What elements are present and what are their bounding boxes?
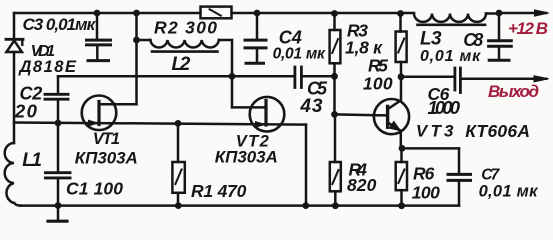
junction L2 left / drain wire [133,37,140,44]
svg-text:R6: R6 [413,164,435,184]
capacitor C2 [45,76,68,123]
junction VT1 drain branch / top rail [133,10,140,17]
wire VT1 drain vertical [135,13,138,104]
wire L2 right vertical to VT2 drain [231,40,234,107]
svg-text:43: 43 [299,96,322,117]
svg-text:Выход: Выход [488,82,539,101]
svg-text:0,01 мк: 0,01 мк [420,48,481,65]
chassis bar C3 [88,59,109,62]
junction L2-VT2 vertical / C2-C5 wire [229,73,236,80]
resistor R3 [330,14,341,115]
arrow +12V [535,10,549,16]
junction VT3 emitter / R6 / C7 [399,145,406,152]
wire C2 to C5 (node A) [58,75,293,78]
capacitor C8 [489,13,512,59]
chassis bar C4 [246,62,264,65]
svg-text:VT3: VT3 [416,121,454,140]
inductor L3 [414,14,499,25]
junction R4 bottom / bottom rail [332,202,339,209]
capacitor C4 [245,13,266,62]
arrow output Выход [534,76,549,82]
junction VT2 source / bottom rail [302,202,309,209]
chassis bar C8 [489,59,509,62]
wire mid (VT1 gate / source, R1, VT2 gate) [14,123,306,125]
junction C2 / C1 / mid wire [55,120,62,127]
junction R3 / top rail [331,10,338,17]
zener diode VD1 [6,39,23,52]
junction C1 / ground / bottom rail [55,202,62,209]
resistor R2 [201,7,232,19]
wire top rail right to +12V arrow [499,12,546,15]
wire VT3 emitter node to C7 [401,147,459,150]
svg-text:100: 100 [363,73,393,93]
junction C4 / top rail [254,10,261,17]
transistor VT1 [82,96,137,131]
junction C3 / top rail [94,10,101,17]
svg-text:R1 470: R1 470 [191,181,247,201]
wire top rail middle segment [232,12,415,15]
junction L3 / C8 / +12V rail [496,10,503,17]
junction R6 bottom / bottom rail [398,202,405,209]
svg-text:L2: L2 [172,54,191,75]
svg-text:С1 100: С1 100 [66,179,123,199]
svg-text:1,8 к: 1,8 к [345,38,383,58]
svg-text:L3: L3 [420,28,442,49]
svg-text:R2 300: R2 300 [154,18,217,38]
svg-text:КП303А: КП303А [75,148,138,167]
capacitor C6 [401,68,546,93]
junction R1 top / mid wire [175,120,182,127]
wire VT2 drain lead [232,106,265,109]
ground chassis under C1 [48,206,67,222]
junction R3 bottom / C5 wire [331,73,338,80]
svg-text:VT1: VT1 [93,130,120,148]
svg-text:820: 820 [347,175,377,195]
junction R5 bottom / C6 / VT3 collector [398,73,405,80]
wire left vertical upper (to VD1) [13,13,16,39]
svg-text:КТ606А: КТ606А [465,121,530,141]
svg-text:1000: 1000 [428,97,461,118]
svg-text:0,01 мк: 0,01 мк [479,183,540,201]
junction R4 top / VT3 base [331,111,338,118]
svg-text:100: 100 [412,183,440,203]
svg-text:L1: L1 [22,150,42,171]
svg-text:Д818Е: Д818Е [18,58,77,76]
capacitor C7 [448,148,471,205]
resistor R6 [396,148,407,205]
junction R1 bottom / bottom rail [175,202,182,209]
wire VT3 base [335,114,387,115]
transistor VT2 [250,97,285,132]
svg-text:КП303А: КП303А [215,148,278,167]
junction R5 / top rail [397,10,404,17]
svg-text:С7: С7 [481,167,500,184]
transistor VT3 [374,77,409,149]
resistor R5 [396,14,407,77]
capacitor C3 [87,13,111,59]
svg-text:С3 0,01мк: С3 0,01мк [23,15,97,34]
resistor R4 [330,114,341,205]
resistor R1 [172,123,184,205]
svg-text:С8: С8 [463,30,483,50]
svg-text:+12 В: +12 В [508,19,548,38]
svg-text:0,01 мк: 0,01 мк [273,46,326,63]
svg-text:20: 20 [14,101,38,122]
capacitor C5 [295,67,335,88]
capacitor C1 [46,123,71,206]
wire top rail left segment [14,12,201,15]
wire left vertical lower (VD1 to mid wire and L1) [13,52,16,143]
inductor L1 [5,143,21,206]
svg-text:С4: С4 [279,28,302,48]
wire bottom rail [20,204,459,207]
wire VT2 source drop [305,125,308,206]
inductor L2 [137,40,233,52]
